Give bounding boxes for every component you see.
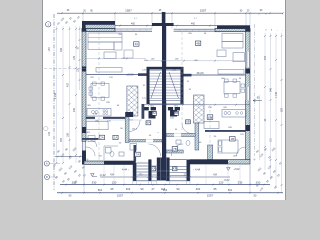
bottom extension lines: [83, 165, 85, 185]
room label 7B: [172, 147, 177, 151]
svg-text:330: 330: [238, 180, 243, 184]
armchair left: [124, 50, 133, 58]
stairwell top cap wall: [147, 67, 184, 70]
hall wall left y140: [129, 140, 162, 142]
interior wall 2A horizontal: [82, 138, 99, 140]
room label 4B: [195, 41, 200, 45]
svg-text:101,5: 101,5: [132, 128, 138, 130]
door arc left entry exterior: [86, 147, 95, 156]
room label KA: [151, 167, 156, 171]
bed right unit: [218, 140, 238, 153]
sofa left unit: [88, 33, 122, 42]
bottom center dim line: [100, 176, 230, 178]
svg-text:90: 90: [177, 187, 180, 191]
hall wall right y134: [166, 134, 195, 137]
bedroom wall right y131: [205, 130, 246, 132]
svg-text:140: 140: [48, 131, 51, 136]
property dash-dot line right: [254, 24, 256, 156]
svg-text:1557: 1557: [207, 194, 214, 198]
party wall main: [162, 26, 166, 167]
svg-text:2A: 2A: [100, 136, 104, 140]
interior vertical dim x210: [209, 105, 211, 158]
kitchen counter right top: [222, 110, 246, 118]
room label 5B: [174, 112, 178, 116]
stair arrow left: [151, 72, 161, 98]
interior dimension line y121 left: [86, 119, 142, 121]
bottom wall left segment: [84, 161, 136, 165]
right exterior wall: [246, 29, 251, 160]
washer left: [106, 148, 112, 154]
svg-text:460: 460: [191, 23, 196, 26]
svg-text:180: 180: [67, 132, 70, 137]
stair bottom cap wall d: [175, 107, 180, 110]
porch steps left: [136, 165, 148, 167]
svg-text:5B: 5B: [175, 111, 179, 115]
svg-text:1557: 1557: [117, 194, 124, 198]
terrace edge top-left: [83, 21, 115, 25]
interior vertical wall x141: [142, 104, 145, 119]
top extension lines: [82, 13, 84, 28]
tv bench right: [218, 70, 244, 75]
page right edge: [285, 0, 287, 200]
svg-text:1 149: 1 149: [54, 92, 57, 99]
room label 6A: [146, 121, 151, 125]
corner column top-right: [246, 26, 250, 32]
svg-text:↓↓: ↓↓: [134, 16, 138, 20]
porch wall left-outer: [133, 163, 137, 181]
svg-text:5A: 5A: [153, 111, 157, 115]
left wall dark column c: [82, 127, 86, 133]
room label 2B: [207, 115, 213, 120]
tv bench left: [96, 68, 122, 73]
wall segment left of stairwell: [138, 73, 147, 76]
right dimension ticks: [264, 35, 266, 37]
svg-text:6A: 6A: [147, 121, 151, 125]
svg-text:1557: 1557: [200, 8, 207, 12]
svg-text:357: 357: [60, 137, 63, 142]
left grid bubble 4: [44, 161, 49, 166]
left wall door reveal: [81, 141, 83, 150]
kitchen counter left: [87, 109, 111, 117]
stair bottom cap wall a: [143, 107, 149, 110]
porch steps right: [170, 166, 187, 168]
svg-text:1557: 1557: [125, 8, 132, 12]
interior dim line right unit y60.8: [146, 60, 245, 62]
svg-text:460: 460: [131, 23, 136, 26]
svg-text:90: 90: [141, 187, 144, 191]
room label 1B: [230, 137, 236, 141]
wardrobe left: [127, 86, 138, 116]
bottom wall left dark cap: [104, 161, 136, 165]
svg-text:1 149: 1 149: [275, 91, 278, 98]
dark duct right: [170, 110, 177, 117]
svg-text:27: 27: [152, 187, 155, 191]
paper sheet: [43, 0, 286, 200]
party wall top stem: [162, 12, 166, 23]
dining table left: [91, 84, 109, 98]
porch wall left-inner: [148, 159, 151, 180]
page background margins: [0, 0, 300, 200]
terrace edge top-right: [217, 26, 248, 29]
wall segment right of stairwell: [184, 74, 192, 77]
svg-text:357: 357: [281, 107, 284, 112]
room label 6B: [186, 120, 191, 124]
svg-text:65: 65: [111, 187, 114, 191]
stair bottom cap wall c: [168, 107, 173, 110]
svg-text:330: 330: [92, 180, 97, 184]
sofa right unit: [222, 34, 243, 42]
door arc entry left: [149, 144, 161, 156]
page left edge: [42, 0, 44, 200]
door gap hall right: [174, 133, 181, 136]
room label 1A: [113, 135, 118, 139]
door arc entry right: [171, 144, 183, 156]
door gap hall left: [146, 139, 153, 142]
left wall dark column b: [82, 67, 86, 72]
svg-text:4A: 4A: [134, 42, 138, 46]
level flag left: [91, 174, 95, 177]
svg-text:801: 801: [228, 188, 233, 192]
svg-text:125: 125: [73, 55, 76, 60]
svg-text:457: 457: [264, 55, 267, 60]
extra extension marks bottom-right: [205, 165, 207, 185]
svg-text:801: 801: [98, 188, 103, 192]
window top right unit: [174, 28, 215, 30]
dining table right: [224, 82, 240, 94]
left exterior wall: [82, 29, 86, 142]
room label 5A: [152, 112, 156, 116]
top dimension line: [57, 12, 283, 14]
dashed center line left unit: [98, 32, 100, 160]
svg-text:-0,22: -0,22: [99, 173, 106, 177]
bedroom partition x207: [208, 145, 213, 160]
svg-text:120: 120: [219, 180, 224, 184]
desk room 2A: [86, 122, 108, 130]
right wall dark column c: [246, 125, 251, 131]
door arc right exterior: [237, 147, 246, 156]
wall below wardrobe right: [195, 123, 199, 150]
left grid bubble 5: [45, 175, 50, 180]
svg-text:120: 120: [112, 180, 117, 184]
svg-text:7A: 7A: [136, 153, 140, 157]
stair arrow right: [169, 72, 178, 98]
left grid bubble 1: [46, 22, 51, 27]
door arc 2A: [90, 140, 97, 147]
stair treads left: [150, 70, 162, 101]
extra extension marks bottom-left: [103, 165, 105, 185]
door gap in wall y117: [95, 117, 103, 120]
corner column top-left: [82, 21, 86, 32]
svg-text:140: 140: [48, 47, 51, 52]
sofa return right: [233, 53, 245, 62]
stair landing lines: [150, 100, 184, 102]
entry threshold left: [136, 162, 148, 164]
seams in entry core: [160, 158, 162, 180]
coffee table left: [104, 52, 116, 59]
right wall window segment upper: [246, 52, 250, 68]
svg-text:↑ 4,44: ↑ 4,44: [193, 167, 201, 171]
entry core dark block center: [157, 158, 170, 181]
entry hall wall left x134: [134, 145, 137, 161]
kitchen island right: [204, 122, 219, 129]
bottom dim line 2: [57, 192, 283, 194]
svg-text:246: 246: [73, 107, 76, 112]
secondary top dimension line right: [172, 25, 250, 27]
left short dim line above bottom wall: [55, 156, 82, 158]
stairwell left side wall: [147, 70, 150, 105]
svg-text:65: 65: [214, 187, 217, 191]
interior wall right y75: [184, 74, 246, 76]
svg-text:346: 346: [270, 87, 273, 92]
bubble 4 leader: [49, 163, 60, 165]
svg-text:7B: 7B: [173, 147, 177, 151]
wardrobe left bottom block: [125, 112, 133, 117]
top wall right unit: [215, 29, 250, 32]
interior dimension line y105: [144, 104, 250, 106]
right wall window segment: [246, 87, 250, 100]
room label KB: [172, 167, 177, 171]
left wall lower dark segment: [82, 151, 86, 165]
svg-text:200: 200: [72, 180, 77, 184]
wc partition left: [103, 146, 105, 160]
bathroom fixtures left: [110, 151, 114, 156]
svg-text:202: 202: [196, 187, 201, 191]
bubble 5 leader: [50, 176, 59, 178]
entry wall right y150: [166, 150, 183, 153]
door arc bath right: [182, 124, 192, 134]
room label 4A: [134, 42, 139, 46]
stair treads right: [166, 70, 180, 101]
window top left unit: [115, 28, 152, 30]
stair bottom cap wall b: [151, 107, 156, 110]
terrace hatch top-left: [86, 25, 116, 29]
svg-text:4B: 4B: [196, 41, 200, 45]
side table right: [217, 50, 226, 57]
left dimension ticks: [56, 28, 58, 30]
svg-text:±0,00: ±0,00: [126, 72, 134, 76]
svg-text:↓↓: ↓↓: [194, 16, 198, 20]
svg-text:6B: 6B: [186, 120, 190, 124]
svg-text:1B: 1B: [230, 137, 234, 141]
left dimension chain lines: [56, 26, 58, 163]
porch front edge right: [166, 180, 190, 182]
svg-text:200: 200: [256, 180, 261, 184]
bottom wall right segment: [190, 160, 250, 164]
svg-text:953: 953: [163, 188, 168, 192]
property dash-dot line left: [53, 14, 55, 190]
interior dim line left unit y58: [86, 58, 146, 60]
bottom wall right dark cap: [190, 160, 228, 164]
right dimension chain lines: [264, 33, 266, 170]
porch wall right-outer: [187, 160, 191, 181]
secondary top dimension line left: [84, 25, 152, 27]
stairwell right side wall: [180, 70, 183, 105]
room label 7A: [135, 152, 140, 156]
interior wall left y117: [86, 117, 126, 119]
svg-text:346: 346: [60, 47, 63, 52]
porch front edge left: [133, 180, 157, 182]
svg-text:KB: KB: [173, 167, 177, 171]
entry steps center-left: [152, 165, 157, 167]
leader arrow right wall window: [253, 100, 262, 102]
dashed level line left margin: [44, 67, 86, 69]
wall below wardrobe left: [125, 117, 129, 143]
bottom dim line 1: [60, 184, 270, 186]
left wall dark column a: [82, 29, 86, 32]
svg-text:202: 202: [126, 187, 131, 191]
door arc bath left: [129, 121, 140, 132]
svg-text:-0,02: -0,02: [223, 178, 230, 182]
dark duct left: [149, 111, 156, 119]
right wall dark column a: [246, 29, 251, 32]
bathroom fixtures right: [186, 140, 190, 145]
entry threshold right: [170, 159, 187, 161]
svg-text:4,44 ↑: 4,44 ↑: [122, 167, 129, 171]
svg-text:457: 457: [67, 82, 70, 87]
room label 2A: [99, 135, 104, 139]
svg-text:-2,02: -2,02: [233, 167, 240, 171]
left grid bubble 3: [44, 126, 48, 130]
svg-text:1A: 1A: [114, 136, 118, 140]
svg-text:KA: KA: [151, 167, 155, 171]
top wall left unit: [82, 29, 115, 32]
wardrobe right: [194, 95, 205, 123]
dashed center line right unit: [181, 32, 183, 130]
chair room 2A: [88, 136, 95, 142]
svg-text:46,00: 46,00: [197, 71, 204, 75]
party wall top cap: [152, 23, 174, 26]
level text right upper: [227, 168, 231, 171]
right wall dark column b: [246, 69, 251, 74]
interior wall left y74: [86, 74, 147, 76]
